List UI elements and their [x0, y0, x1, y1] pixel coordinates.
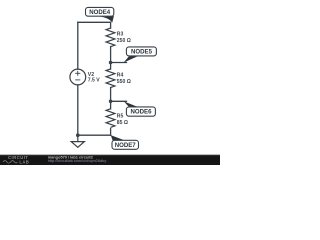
- svg-text:NODE6: NODE6: [131, 109, 153, 116]
- svg-text:NODE5: NODE5: [131, 48, 153, 55]
- svg-text:NODE7: NODE7: [115, 142, 137, 149]
- svg-text:R3: R3: [117, 32, 124, 38]
- svg-text:7.5 V: 7.5 V: [88, 77, 100, 83]
- svg-text:NODE4: NODE4: [89, 9, 111, 16]
- svg-text:550 Ω: 550 Ω: [117, 79, 131, 85]
- svg-text:LAB: LAB: [19, 160, 29, 165]
- svg-text:http://circuitlab.com/c/cfcqm2: http://circuitlab.com/c/cfcqm26dby: [48, 158, 107, 163]
- svg-text:250 Ω: 250 Ω: [117, 38, 131, 44]
- svg-text:85 Ω: 85 Ω: [117, 120, 128, 126]
- svg-text:R5: R5: [117, 114, 124, 120]
- svg-text:R4: R4: [117, 73, 124, 79]
